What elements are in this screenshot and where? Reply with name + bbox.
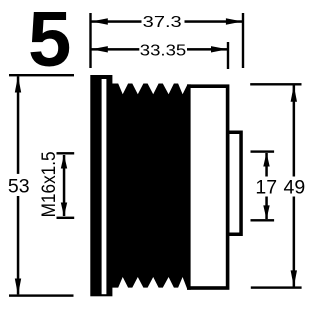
dimension 53 up arrow [15, 76, 21, 93]
thread length bottom tick [57, 217, 75, 219]
hub body (outlined rectangle) [187, 84, 229, 289]
dimension 53 top extension line [9, 74, 74, 76]
svg-text:33.35: 33.35 [140, 42, 187, 59]
svg-text:M16x1.5: M16x1.5 [38, 151, 60, 217]
dimension 37.3 right extension line [242, 13, 244, 68]
dimension 49 bottom extension line [251, 286, 302, 288]
dimension 37.3 right arrow [226, 18, 243, 24]
dimension 33.35 line left segment [91, 48, 139, 51]
flange inner slot [102, 79, 107, 294]
dimension 49 top extension line [250, 83, 301, 85]
dimension 37.3 left arrow [91, 18, 108, 24]
dimension 53 line upper segment [17, 76, 20, 173]
dimension 53 bottom extension line [9, 294, 74, 296]
ribbed pulley body (belt grooves silhouette) [111, 84, 191, 290]
dimension 17 line upper segment [265, 153, 268, 177]
dimension 49 line upper segment [293, 86, 296, 177]
svg-text:5: 5 [28, 0, 71, 82]
dimension 53 down arrow [15, 279, 21, 296]
dimension 17 bottom tick [251, 219, 275, 221]
dimension 17 line lower segment [265, 197, 268, 220]
svg-text:49: 49 [284, 177, 306, 199]
hub end protrusion (small outlined rectangle) [226, 131, 243, 237]
dimension 37.3 line right segment [185, 20, 243, 23]
dimension 37.3 left extension line [89, 13, 91, 68]
dimension 53 line lower segment [17, 196, 20, 294]
dimension 17 down arrow [263, 205, 269, 219]
dimension 33.35 line right segment [187, 48, 228, 51]
dimension 49 up arrow [291, 85, 297, 102]
dimension 33.35 right extension line [227, 42, 229, 69]
dimension 17 top tick [251, 150, 275, 152]
thread length down arrow [61, 203, 67, 217]
thread length top tick [57, 152, 75, 154]
dimension 33.35 right arrow [211, 46, 228, 52]
dimension 33.35 left arrow [91, 46, 108, 52]
dimension 49 line lower segment [293, 197, 296, 287]
dimension 37.3 line left segment [91, 20, 141, 23]
dimension 17 up arrow [263, 153, 269, 167]
svg-text:53: 53 [8, 176, 30, 198]
svg-text:17: 17 [255, 177, 277, 199]
flange (left pulley plate, cross-section) [90, 75, 112, 296]
thread length up arrow [61, 155, 67, 169]
thread length dimension line [63, 155, 66, 216]
svg-text:37.3: 37.3 [143, 14, 182, 31]
dimension 49 down arrow [291, 270, 297, 287]
